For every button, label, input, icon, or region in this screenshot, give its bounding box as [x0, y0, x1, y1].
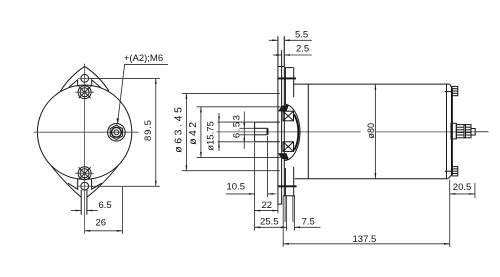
top tab top edge — [285, 67, 293, 69]
motor body bottom chamfer — [448, 175, 452, 179]
flange plate rear face — [281, 50, 283, 204]
dim ø63.45 bottom extension — [182, 170, 280, 172]
hatch area bottom — [279, 154, 288, 160]
shaft slot top edge — [255, 127, 268, 129]
dim 7.5 line — [294, 226, 320, 228]
dim 6.53 line (arrows outside) — [243, 112, 245, 149]
svg-text:20.5: 20.5 — [453, 182, 472, 193]
svg-text:ø80: ø80 — [366, 123, 376, 139]
bottom tab bottom edge — [283, 195, 295, 197]
top gusset left — [69, 80, 78, 88]
middle terminal outer block — [466, 125, 472, 138]
motor body top chamfer — [450, 84, 452, 88]
svg-text:89.5: 89.5 — [143, 119, 154, 141]
bottom gusset left — [68, 179, 78, 189]
horizontal centerline — [34, 131, 139, 133]
label leader line — [118, 64, 125, 123]
top tab (edge view) right — [293, 68, 295, 98]
dim ø80 line — [374, 84, 376, 179]
svg-text:6.5: 6.5 — [99, 200, 112, 211]
dim 10.5 ext left — [254, 143, 256, 231]
flange plate front face — [277, 36, 279, 204]
top tab (edge view) left — [284, 68, 286, 104]
dim ø63.45 top extension — [182, 92, 280, 94]
bearing box bottom — [283, 142, 294, 152]
slot top ext to dim — [240, 127, 255, 129]
terminal axis line — [475, 131, 488, 133]
dim 2.5 line — [273, 54, 282, 56]
dim 89.5 bottom extension — [91, 185, 160, 187]
top stud hole line — [445, 91, 452, 93]
svg-text:5.5: 5.5 — [295, 29, 308, 40]
bottom tab (edge view) left — [284, 168, 286, 196]
bottom stud — [452, 167, 458, 176]
vertical centerline — [84, 64, 86, 234]
bottom tab (edge view) right — [293, 167, 295, 196]
shaft end face — [254, 122, 256, 142]
dim 137.5 ext right — [449, 180, 451, 247]
dim 5.5 line — [269, 39, 278, 41]
shaft top ext to dim — [218, 121, 255, 123]
dim 10.5 ext right — [267, 136, 269, 197]
svg-text:+(A2);M6: +(A2);M6 — [124, 53, 163, 64]
dim 25.5 line — [255, 226, 287, 228]
bottom tab hole — [81, 182, 89, 190]
dim 137.5 ext left — [282, 196, 284, 247]
bottom tab hole tick — [78, 185, 91, 187]
dim 10.5 line — [226, 193, 255, 195]
bottom tab slot right edge — [86, 190, 88, 215]
svg-text:10.5: 10.5 — [227, 181, 246, 192]
bottom hole line (bold) — [278, 185, 297, 187]
dim ø63.45 line — [185, 93, 187, 170]
bottom screw head — [75, 167, 94, 180]
motor body bottom edge — [295, 178, 448, 180]
top stud — [452, 86, 458, 95]
top mounting tab outline — [61, 66, 109, 91]
dim ø15.75 line (arrows outside) — [218, 113, 220, 151]
terminal stud (front) — [108, 124, 126, 142]
top tab hole — [81, 74, 89, 82]
motor body right face (bold) — [451, 88, 453, 175]
bearing cap bold arc — [294, 114, 298, 150]
dim 89.5 top extension — [89, 77, 160, 79]
svg-text:2.5: 2.5 — [296, 43, 309, 54]
boss silhouette arc — [284, 104, 300, 160]
dim 89.5 line — [155, 78, 157, 186]
shaft bottom edge — [255, 141, 280, 143]
shaft slot end step — [267, 128, 269, 135]
middle terminal tip — [471, 129, 475, 136]
slot bottom ext to dim — [240, 134, 255, 136]
dim 26 line — [85, 230, 123, 232]
motor body top edge — [294, 83, 450, 85]
svg-text:137.5: 137.5 — [353, 234, 377, 245]
bearing box top — [283, 111, 294, 121]
svg-text:ø15.75: ø15.75 — [206, 121, 217, 151]
main horizontal centerline — [217, 131, 361, 133]
shaft top edge — [255, 121, 280, 123]
leader arrowhead — [117, 118, 120, 123]
dim ø42 line — [200, 107, 202, 158]
middle terminal nut divider — [464, 125, 466, 138]
dim 2.5 extension — [281, 50, 283, 66]
front housing seam — [307, 84, 309, 179]
bottom gusset right — [92, 179, 102, 189]
svg-text:ø42: ø42 — [187, 120, 199, 145]
motor body circle — [37, 85, 131, 179]
middle terminal stud base — [451, 123, 456, 139]
bottom tab slot left edge — [80, 190, 82, 215]
top gusset right — [92, 80, 101, 88]
shaft bottom ext to dim — [218, 141, 255, 143]
top screw head — [75, 86, 94, 99]
flange plate bottom edge — [278, 203, 282, 205]
svg-text:25.5: 25.5 — [260, 217, 279, 228]
dim 26 extension right — [121, 187, 123, 234]
svg-text:26: 26 — [96, 218, 107, 229]
dim ø42 bottom extension — [197, 157, 281, 159]
bottom stud hole line — [445, 170, 452, 172]
svg-text:22: 22 — [262, 200, 273, 211]
middle terminal threaded block — [456, 125, 464, 138]
end cap seam — [446, 84, 448, 179]
label leader shelf — [124, 63, 168, 65]
dim 20.5 ext right — [474, 183, 476, 198]
dim 5.5 extensions — [277, 36, 279, 66]
dim 22 line — [255, 210, 278, 212]
svg-text:7.5: 7.5 — [302, 217, 315, 228]
dim ø42 top extension — [197, 106, 281, 108]
dim 137.5 line — [283, 243, 450, 245]
top tab hole tick — [78, 77, 91, 79]
dim 22 ext right — [277, 204, 279, 213]
shaft slot bottom edge — [255, 134, 268, 136]
boss front face line — [283, 36, 285, 196]
dim 6.5 line — [71, 210, 81, 212]
top hole line (bold) — [278, 77, 296, 79]
hatch area top — [279, 105, 288, 111]
dim 25.5 / 7.5 exts — [286, 196, 288, 231]
flange plate top edge — [278, 66, 284, 68]
dim 20.5 line — [450, 193, 475, 195]
svg-text:ø63.45: ø63.45 — [173, 105, 185, 153]
bottom mounting tab outline — [51, 166, 81, 198]
